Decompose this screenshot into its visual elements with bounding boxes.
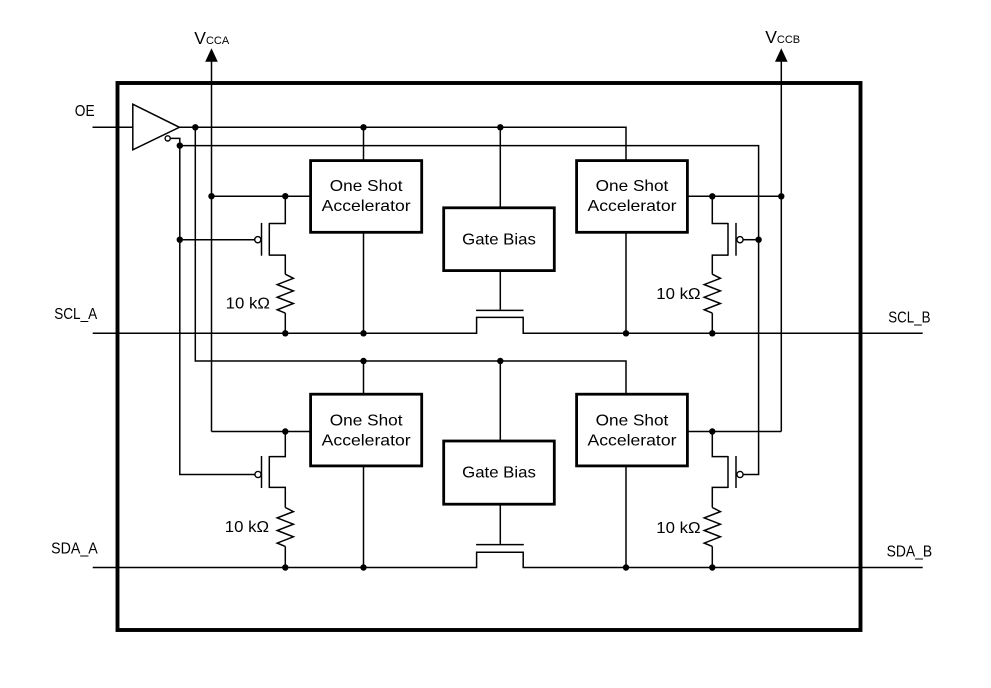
svg-text:SCL_A: SCL_A bbox=[54, 306, 97, 323]
svg-text:SCL_B: SCL_B bbox=[888, 310, 930, 327]
svg-text:One Shot: One Shot bbox=[330, 413, 403, 430]
svg-text:10 kΩ: 10 kΩ bbox=[225, 519, 269, 536]
svg-text:Accelerator: Accelerator bbox=[322, 198, 412, 215]
svg-text:OE: OE bbox=[75, 103, 95, 120]
svg-text:SDA_A: SDA_A bbox=[51, 540, 98, 557]
svg-text:Accelerator: Accelerator bbox=[588, 433, 678, 450]
svg-text:10 kΩ: 10 kΩ bbox=[656, 520, 700, 537]
svg-text:One Shot: One Shot bbox=[330, 178, 403, 195]
svg-text:Gate Bias: Gate Bias bbox=[462, 465, 536, 482]
svg-text:Accelerator: Accelerator bbox=[322, 433, 412, 450]
svg-text:10 kΩ: 10 kΩ bbox=[656, 286, 700, 303]
svg-text:10 kΩ: 10 kΩ bbox=[226, 296, 270, 313]
svg-text:SDA_B: SDA_B bbox=[887, 544, 933, 561]
svg-text:One Shot: One Shot bbox=[596, 413, 669, 430]
svg-text:Gate Bias: Gate Bias bbox=[462, 231, 536, 248]
svg-text:Accelerator: Accelerator bbox=[588, 198, 678, 215]
svg-text:One Shot: One Shot bbox=[596, 178, 669, 195]
